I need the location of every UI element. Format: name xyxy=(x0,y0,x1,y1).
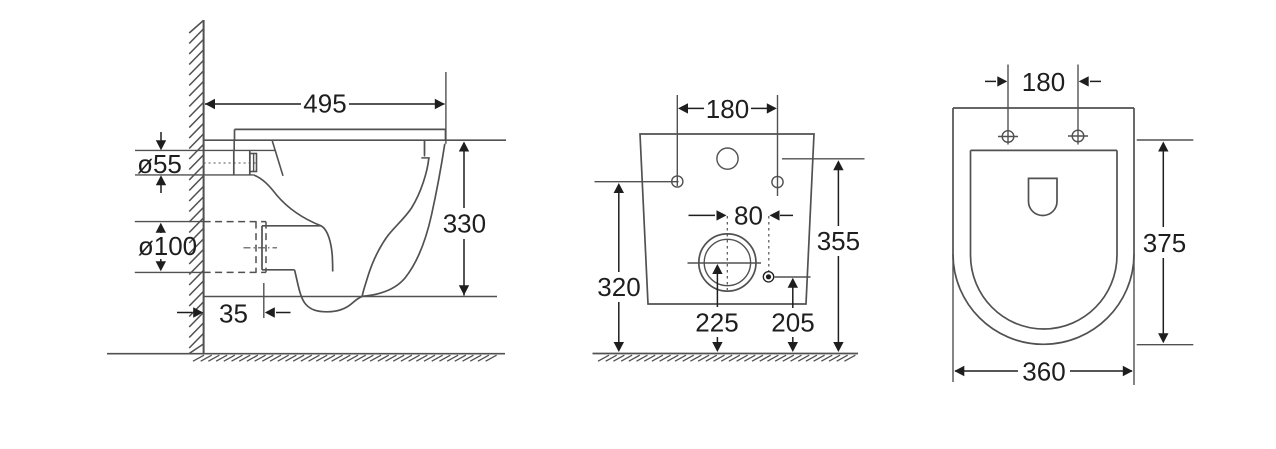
top view: 360 extension lines xyxy=(952,254,954,382)
left view: drain vertical xyxy=(261,226,263,270)
left view: lower step line xyxy=(262,269,295,271)
middle view: dim 320 extension line xyxy=(595,181,679,183)
middle view: dim 355 xyxy=(833,160,843,170)
left view: inner diagonal (flush duct) xyxy=(272,141,283,176)
middle view: drain outer circle xyxy=(699,234,756,291)
left view: dim 330 xyxy=(463,143,465,208)
top view: bolt extension lines xyxy=(1007,65,1009,145)
top view: dim 180 xyxy=(985,80,996,82)
left view: rim reference line xyxy=(204,139,506,141)
svg-text:35: 35 xyxy=(219,299,248,329)
svg-text:ø55: ø55 xyxy=(137,149,182,179)
top view: seat ring xyxy=(971,150,1118,329)
left view: inlet dotted centerline xyxy=(204,162,256,164)
middle view: dim 180 xyxy=(688,107,704,109)
left view: pipe dash-dot centerline xyxy=(244,247,278,249)
svg-text:495: 495 xyxy=(303,89,346,119)
middle view: floor line xyxy=(593,353,859,355)
left view: wall hatching xyxy=(189,21,203,354)
left view: inlet spigot xyxy=(250,154,257,172)
middle view: water inlet circle xyxy=(717,148,738,169)
middle view: fixing screw xyxy=(763,272,773,282)
left view: right extension line xyxy=(445,72,447,144)
left view: bottom reference line xyxy=(204,296,497,298)
middle view: body trapezoid xyxy=(640,134,814,304)
middle view: dim 180 extension lines xyxy=(676,95,678,186)
svg-text:360: 360 xyxy=(1022,357,1065,387)
left view: bowl bottom dip xyxy=(295,270,363,312)
top view: outer rim xyxy=(953,108,1134,344)
svg-text:ø100: ø100 xyxy=(138,231,197,261)
left view: inlet box xyxy=(233,150,235,175)
middle view: dim 355 extension line xyxy=(782,158,865,160)
svg-text:80: 80 xyxy=(734,201,763,231)
top view: dim 375 extension lines xyxy=(1137,139,1194,141)
middle view: left mounting hole xyxy=(672,176,683,187)
left view: front exterior curve xyxy=(362,144,445,296)
svg-text:320: 320 xyxy=(597,272,640,302)
svg-text:375: 375 xyxy=(1143,228,1186,258)
left view: dim 495 xyxy=(205,103,301,105)
svg-text:180: 180 xyxy=(1022,67,1065,97)
left view: inner rim notch xyxy=(424,140,426,154)
middle view: dim 80 dotted extension lines xyxy=(726,216,728,290)
svg-text:205: 205 xyxy=(771,308,814,338)
left view: floor hatching xyxy=(193,355,497,361)
left view: inner bowl S-curve xyxy=(362,158,429,296)
middle view: floor hatching xyxy=(598,355,855,361)
middle view: drain inner circle xyxy=(704,239,750,285)
middle view: dim 320 xyxy=(614,183,624,193)
left view: seat/lid xyxy=(235,128,446,130)
left view: dim ø55 arrows xyxy=(160,132,162,145)
middle view: dim 205 xyxy=(788,278,798,288)
left view: underside line xyxy=(262,225,321,227)
top view: dim 375 xyxy=(1158,142,1168,152)
middle view: 205 extension line xyxy=(775,276,811,278)
left view: dim ø55 extension lines xyxy=(135,149,275,151)
top view: right bolt xyxy=(1072,130,1084,142)
top view: left bolt xyxy=(1002,131,1014,143)
left view: body back edge xyxy=(233,140,235,150)
svg-text:355: 355 xyxy=(817,226,860,256)
left view: wall line xyxy=(203,20,205,354)
top view: dim 360 xyxy=(955,370,1018,372)
left view: dashed drain pipe xyxy=(204,221,266,223)
left view: 35 extension line xyxy=(263,283,265,318)
middle view: dim 225 xyxy=(712,264,722,274)
left view: dim 35 xyxy=(177,312,193,314)
left view: dim ø100 arrows xyxy=(160,230,162,233)
left view: floor line xyxy=(107,353,505,355)
middle view: dim 80 xyxy=(689,214,716,216)
middle view: right mounting hole xyxy=(772,176,783,187)
svg-text:330: 330 xyxy=(443,209,486,239)
middle view: drain horizontal centerline xyxy=(688,262,762,264)
svg-text:180: 180 xyxy=(706,94,749,124)
top view: flush button shape xyxy=(1029,178,1058,215)
svg-text:225: 225 xyxy=(695,308,738,338)
left view: body back S-curve down to trap xyxy=(254,175,333,272)
left view: dim ø100 extension lines xyxy=(135,221,204,223)
